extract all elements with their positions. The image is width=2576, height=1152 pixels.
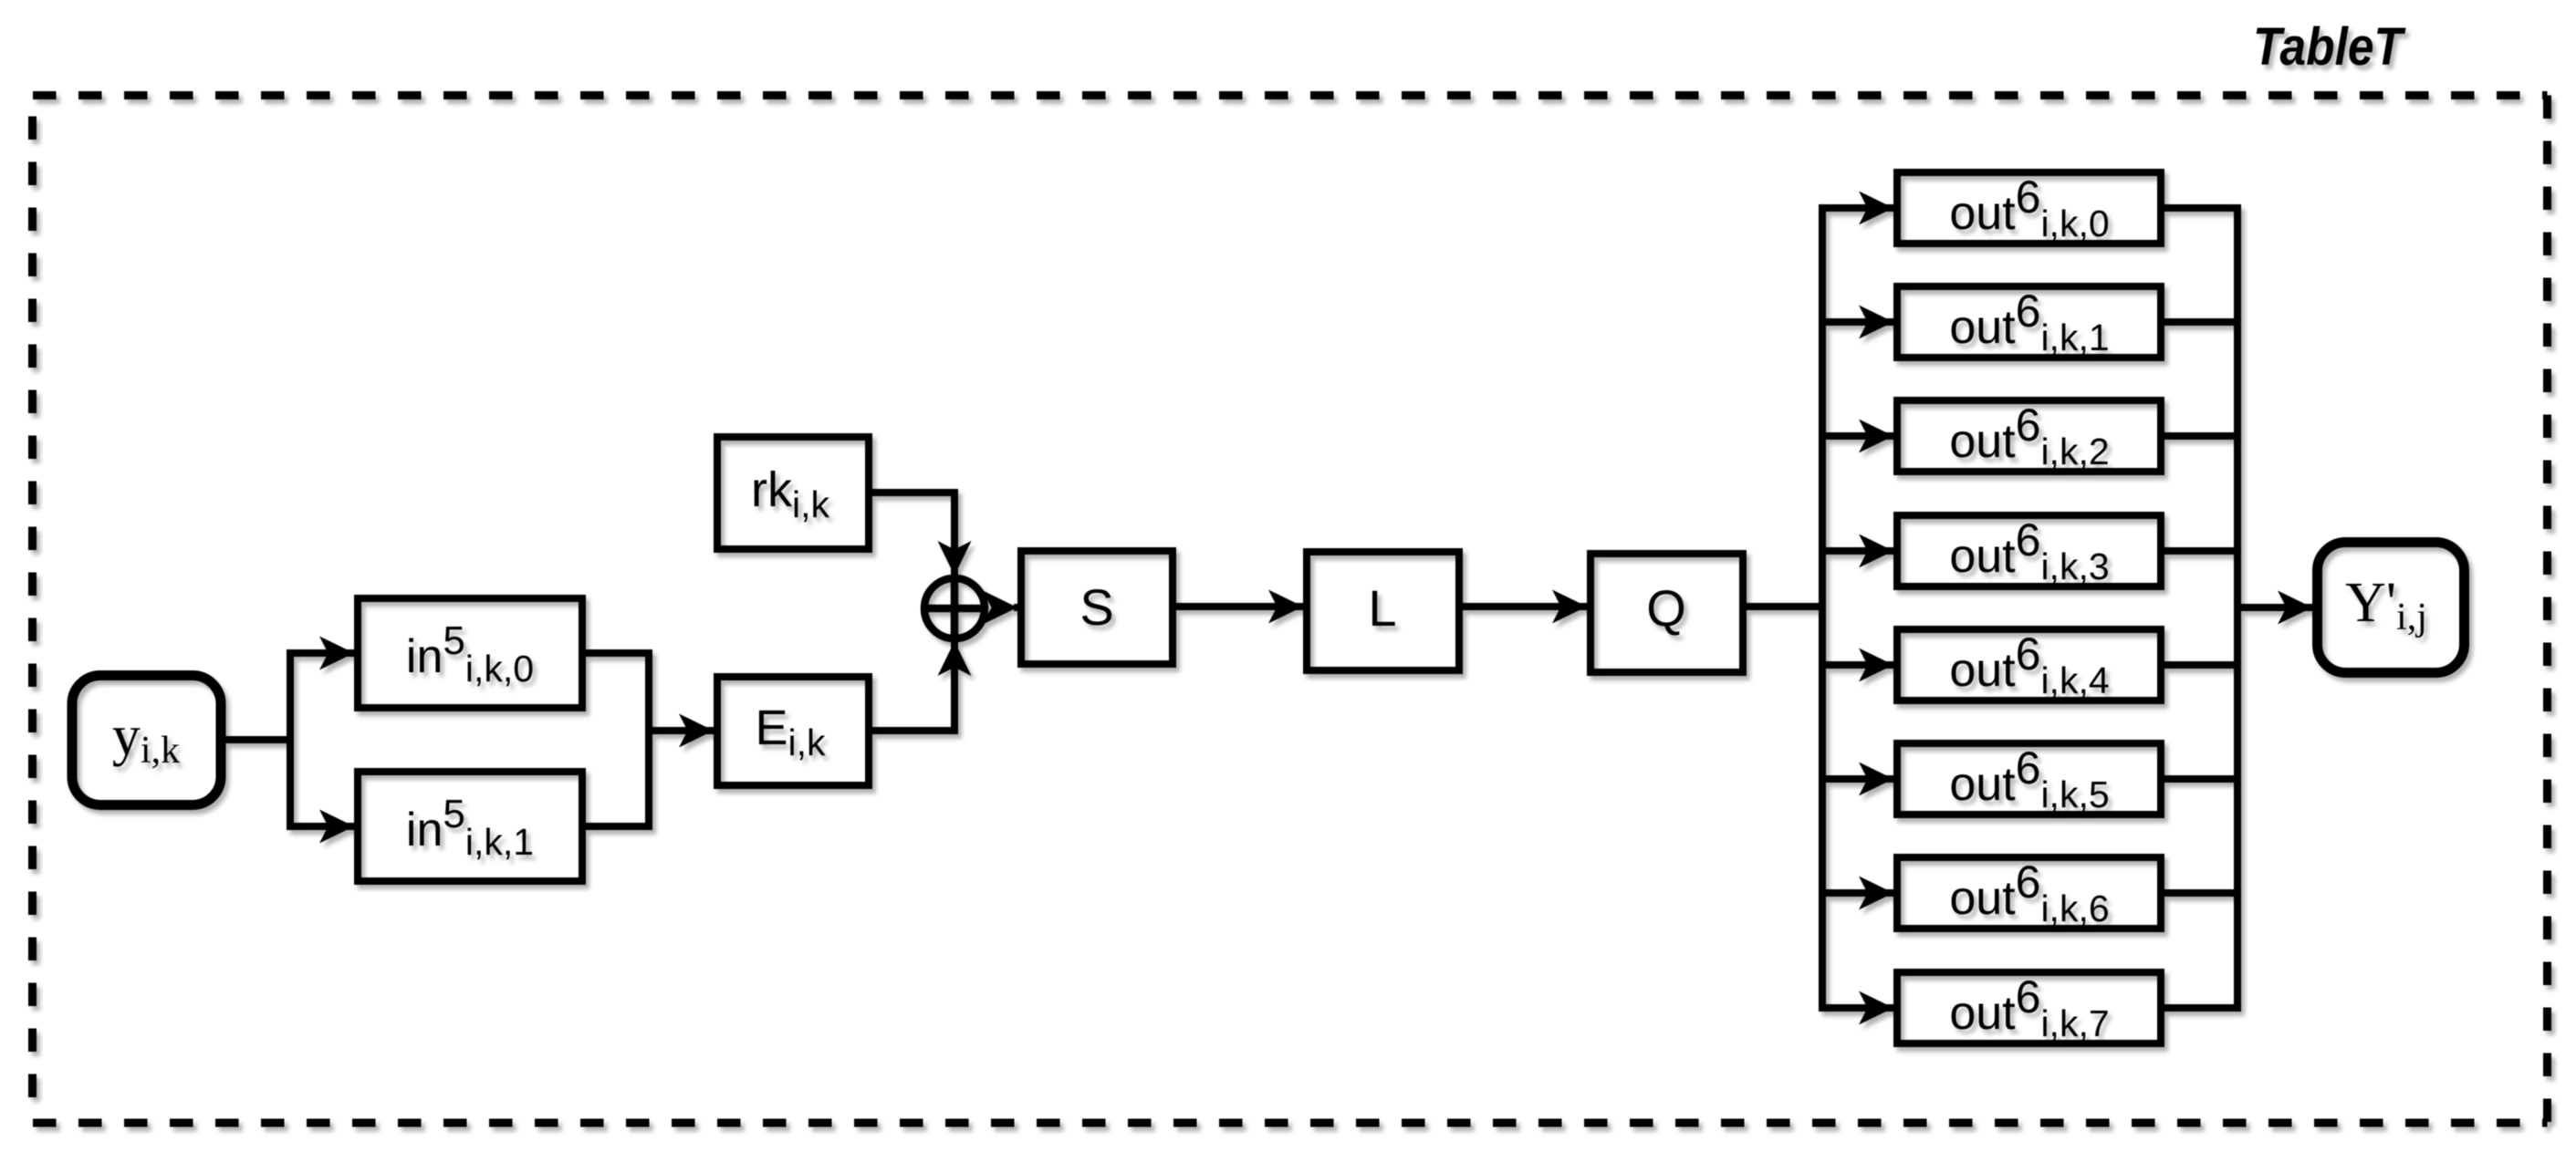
- wire left bus vertical: [1819, 208, 1826, 1008]
- block E_i,k: [717, 677, 869, 785]
- block L: [1307, 552, 1459, 670]
- wire right bus vertical: [2234, 208, 2241, 1008]
- svg-text:TableT: TableT: [2253, 17, 2406, 77]
- wire Q to left bus: [1747, 603, 1822, 610]
- xor junction: [924, 578, 985, 638]
- wire xor to S: [1014, 604, 1017, 611]
- block in5_i,k,0: [358, 598, 582, 708]
- wire branch to in5_i,k,1: [287, 823, 354, 830]
- block out6_i,k,1: [1897, 286, 2161, 358]
- wire junction to E_i,k: [645, 727, 714, 734]
- wire in5_i,k,1 right: [586, 823, 652, 830]
- block rk_i,k: [717, 437, 869, 549]
- block out6_i,k,6: [1897, 857, 2161, 929]
- wire rk_i,k to xor: [872, 493, 954, 576]
- wire bus to out6_i,k,1: [1822, 318, 1893, 326]
- wire out6_i,k,1 to right bus: [2164, 318, 2237, 326]
- wire S to L: [1176, 603, 1303, 610]
- wire L to Q: [1463, 603, 1587, 610]
- node Y'_i,j: [2318, 543, 2465, 673]
- block out6_i,k,5: [1897, 743, 2161, 815]
- wire out6_i,k,0 to right bus: [2164, 204, 2241, 212]
- node y_i,k: [72, 676, 221, 805]
- block out6_i,k,0: [1897, 172, 2161, 244]
- wire bus to out6_i,k,5: [1822, 775, 1893, 783]
- block S: [1021, 551, 1173, 664]
- block out6_i,k,4: [1897, 629, 2161, 701]
- wire out6_i,k,2 to right bus: [2164, 432, 2237, 440]
- wire bus to out6_i,k,0: [1819, 204, 1893, 212]
- wire bus to out6_i,k,2: [1822, 432, 1893, 440]
- wire junction vertical: [645, 653, 652, 826]
- wire out6_i,k,5 to right bus: [2164, 775, 2237, 783]
- wire bus to out6_i,k,6: [1822, 889, 1893, 897]
- wire branch to in5_i,k,0: [287, 649, 354, 657]
- wire out6_i,k,6 to right bus: [2164, 889, 2237, 897]
- block out6_i,k,2: [1897, 400, 2161, 472]
- block out6_i,k,7: [1897, 972, 2161, 1043]
- block in5_i,k,1: [358, 772, 582, 881]
- wire in5_i,k,0 right: [586, 649, 652, 657]
- svg-text:S: S: [1079, 578, 1113, 636]
- wire bus to out6_i,k,7: [1819, 1004, 1893, 1012]
- wire out6_i,k,3 to right bus: [2164, 547, 2237, 555]
- wire y_i,k to branch: [225, 736, 290, 743]
- block Q: [1590, 554, 1743, 672]
- wire bus to out6_i,k,3: [1822, 547, 1893, 555]
- wire bus to out6_i,k,4: [1822, 661, 1893, 669]
- block out6_i,k,3: [1897, 515, 2161, 586]
- wire out6_i,k,4 to right bus: [2164, 661, 2237, 669]
- svg-text:Q: Q: [1646, 579, 1686, 637]
- svg-text:L: L: [1368, 579, 1396, 637]
- wire right bus to Y'_i,j: [2237, 604, 2312, 611]
- wire E_i,k to xor: [872, 641, 954, 731]
- wire out6_i,k,7 to right bus: [2164, 1004, 2241, 1012]
- wire branch vertical: [287, 653, 294, 826]
